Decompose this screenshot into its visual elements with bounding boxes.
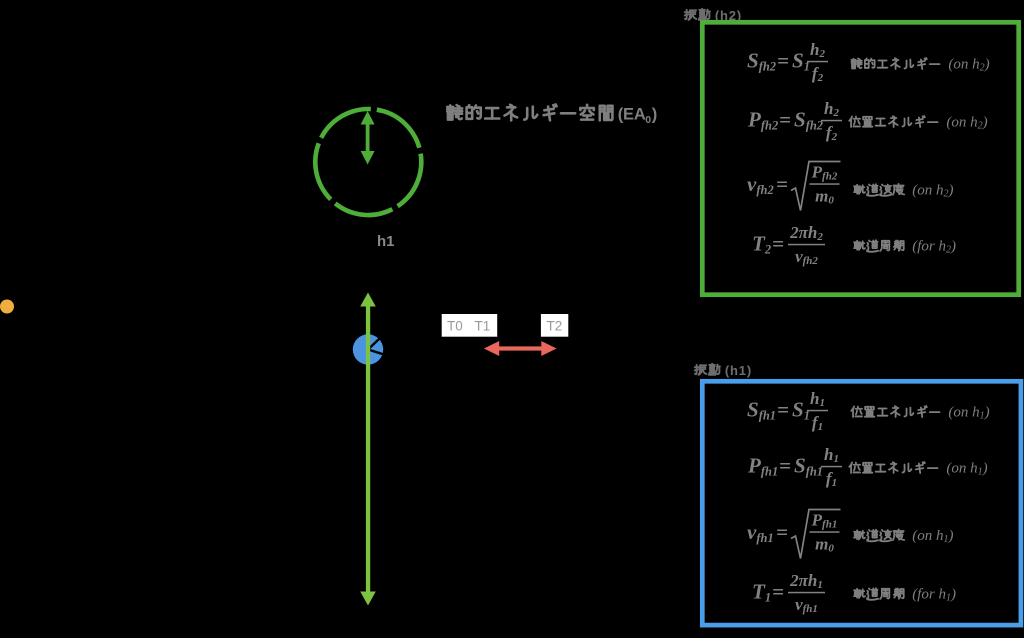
label orbital velocity on h2 xyxy=(854,184,904,196)
blue box title 振動 (h1) xyxy=(695,364,720,375)
svg-text:(EA: (EA xyxy=(618,106,646,124)
white label box T0 T1 xyxy=(442,314,498,337)
label potential energy on h2 xyxy=(849,116,937,127)
red double arrow xyxy=(484,341,557,356)
svg-text:T1: T1 xyxy=(475,319,491,334)
svg-text:): ) xyxy=(652,106,658,124)
title kanji 静的エネルギー空間 xyxy=(447,104,612,120)
svg-text:=: = xyxy=(779,454,791,478)
svg-text:0: 0 xyxy=(645,114,651,126)
clock hands xyxy=(368,339,382,354)
svg-text:=: = xyxy=(777,398,789,422)
svg-text:=: = xyxy=(779,108,791,132)
label potential energy on h1 (row1) xyxy=(851,406,939,417)
svg-text:=: = xyxy=(776,172,788,196)
label potential energy on h1 (row2) xyxy=(849,462,937,473)
svg-text:T2: T2 xyxy=(547,319,563,334)
green formula box xyxy=(702,22,1018,294)
label static energy on h2 xyxy=(852,58,940,69)
blue formula box xyxy=(702,381,1021,625)
blue clock circle xyxy=(353,334,383,364)
white label box T2 xyxy=(541,314,568,337)
svg-text:=: = xyxy=(772,232,784,256)
inner green double arrow xyxy=(361,111,375,165)
green box title 振動 (h2) xyxy=(685,9,710,20)
svg-text:=: = xyxy=(777,49,789,73)
label orbital period for h1 xyxy=(854,588,904,600)
svg-text:T0: T0 xyxy=(447,319,463,334)
label orbital velocity on h1 xyxy=(854,529,904,541)
green dashed orbit circle xyxy=(294,87,443,236)
svg-text:=: = xyxy=(772,580,784,604)
svg-text:=: = xyxy=(776,520,788,544)
long arrow body xyxy=(360,293,376,606)
orange marker dot xyxy=(0,300,14,314)
svg-text:h1: h1 xyxy=(377,233,395,250)
svg-text:(h1): (h1) xyxy=(725,363,752,378)
label orbital period for h2 xyxy=(854,240,904,252)
